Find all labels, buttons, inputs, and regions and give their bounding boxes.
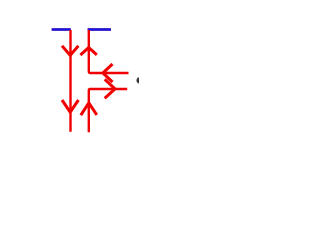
arrowhead: chevron down on I1 upper section <box>62 46 78 56</box>
arrowhead: chevron left on I2 horizontal section <box>103 64 113 82</box>
arrowhead: chevron up on I2 vertical section <box>80 48 96 56</box>
wire: red current path I3 (horizontal y=89, elbow down at x=88.8) <box>89 89 127 132</box>
wire: red underlay beneath right blue rail <box>88 28 111 31</box>
arrowhead: chevron right on I3 horizontal section <box>105 79 115 98</box>
wire: red vertical current path I1 (down from end of B1) <box>69 30 71 132</box>
node: gray terminal dot at right edge <box>136 77 142 83</box>
arrowhead: chevron up on I3 vertical section <box>81 103 97 115</box>
wire: red underlay beneath left blue rail <box>52 28 71 31</box>
wire: blue rail segment B2 (top right) <box>88 28 111 30</box>
wire: red current path I2 (down from start of B2, elbow right at y=73) <box>89 30 129 73</box>
arrowhead: chevron down on I1 lower section <box>62 100 78 112</box>
wire: blue rail segment B1 (top left) <box>52 28 71 30</box>
